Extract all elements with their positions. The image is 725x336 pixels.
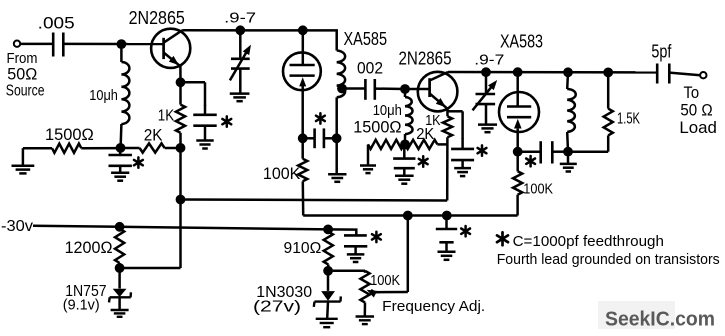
- node B junction: [116, 143, 126, 153]
- node H below U1: [298, 133, 308, 143]
- node C junction: [176, 143, 186, 153]
- asterisk for C7: [478, 145, 487, 155]
- feedthrough capacitor C3: [193, 105, 217, 149]
- svg-text:50Ω: 50Ω: [7, 65, 37, 84]
- asterisk for C10: [461, 226, 470, 236]
- resistor R11 910 ohm: [284, 232, 333, 271]
- svg-text:Frequency Adj.: Frequency Adj.: [382, 298, 485, 315]
- svg-text:.005: .005: [38, 15, 75, 33]
- node varactor V1 on rail: [235, 25, 245, 35]
- ground for V1: [230, 94, 250, 102]
- ground for tank 1: [328, 174, 346, 182]
- feedthrough capacitor C11 at rail end: [344, 235, 367, 262]
- capacitor C8 coupling at node L: [518, 141, 568, 163]
- node tube U1 on rail: [298, 25, 308, 35]
- transistor Q1 2N2865: [129, 8, 191, 82]
- svg-text:Source: Source: [6, 82, 45, 99]
- wire collector rail stage 1: [182, 30, 337, 50]
- svg-text:C=1000pf feedthrough: C=1000pf feedthrough: [513, 233, 664, 250]
- resistor R4 1500 ohm stage 2: [353, 118, 404, 166]
- node P zener D2 junction: [323, 266, 333, 276]
- resistor R1 1500 ohm: [23, 125, 121, 153]
- feedthrough capacitor C6 at node K: [393, 144, 415, 183]
- wire node P to potentiometer: [328, 271, 365, 273]
- wire C1 to Q1 base: [63, 43, 164, 46]
- resistor R6 1K stage 2: [425, 113, 452, 200]
- svg-text:100K: 100K: [263, 165, 301, 183]
- inductor L1 10uh: [89, 44, 129, 148]
- resistor R2 2K: [121, 127, 181, 153]
- label From 50ohm Source: [6, 50, 45, 99]
- svg-text:2N2865: 2N2865: [129, 8, 185, 28]
- asterisk for C2: [134, 157, 143, 167]
- ground for V2: [478, 125, 497, 133]
- potentiometer R12 100K Frequency Adj: [360, 216, 485, 317]
- node K junction: [400, 140, 410, 150]
- ground for R4: [360, 166, 376, 174]
- label -30v: [1, 218, 33, 235]
- svg-text:1200Ω: 1200Ω: [65, 238, 113, 257]
- svg-text:(27v): (27v): [253, 299, 301, 316]
- svg-text:100K: 100K: [523, 182, 553, 198]
- asterisk for C4: [316, 113, 325, 123]
- zener diode D1 1N757: [63, 268, 131, 314]
- tube U1 XA585 voltage-variable capacitor: [283, 29, 387, 138]
- inductor L2 tank coil stage 1: [337, 51, 345, 174]
- node G 1200 ohm on rail: [115, 222, 125, 232]
- svg-text:1.5K: 1.5K: [617, 111, 640, 128]
- input terminal From 50 ohm Source: [14, 41, 20, 47]
- svg-text:10μh: 10μh: [373, 102, 402, 119]
- asterisk for C3: [222, 116, 231, 126]
- resistor R8 1.5K: [568, 72, 640, 151]
- node tube U2 on rail: [513, 67, 523, 77]
- node A junction: [117, 39, 127, 49]
- resistor R5 2K stage 2: [405, 126, 447, 149]
- svg-text:Load: Load: [679, 118, 717, 137]
- svg-text:002: 002: [357, 59, 383, 78]
- svg-text:To: To: [684, 83, 700, 102]
- inductor L4 tank coil stage 2: [567, 72, 576, 151]
- svg-text:XA583: XA583: [500, 32, 543, 52]
- node O on line2: [442, 211, 452, 221]
- wire line1 emitter bias bus: [181, 200, 448, 201]
- resistor R7 100K stage 2: [513, 152, 553, 216]
- svg-text:-30v: -30v: [1, 218, 33, 235]
- wire line2 varactor bias bus: [303, 214, 517, 217]
- wire collector rail stage 2: [448, 71, 657, 74]
- node F zener D1 junction: [115, 263, 125, 273]
- ground for node M: [560, 152, 577, 172]
- varactor V2 .9-7 trimmer: [473, 52, 505, 125]
- svg-text:1500Ω: 1500Ω: [45, 125, 94, 144]
- wire C9 to output terminal: [669, 73, 700, 76]
- wire Q2 emitter branch to C7: [447, 111, 462, 139]
- asterisk for C11: [372, 232, 381, 242]
- svg-text:50 Ω: 50 Ω: [680, 100, 712, 119]
- svg-text:.9-7: .9-7: [224, 10, 256, 27]
- svg-text:2K: 2K: [144, 127, 163, 145]
- node 1.5K on rail: [603, 68, 613, 78]
- label To 50ohm Load: [679, 83, 717, 137]
- wire tap to C5: [342, 87, 365, 90]
- footnote text C=1000pf feedthrough: [513, 233, 664, 250]
- svg-text:SeekIC.com: SeekIC.com: [605, 308, 715, 331]
- resistor R10 1200 ohm: [65, 229, 125, 268]
- inductor L3 10uh stage 2: [373, 89, 413, 144]
- svg-text:910Ω: 910Ω: [284, 240, 322, 257]
- ground for potentiometer: [356, 317, 375, 325]
- tube U2 XA583 voltage-variable capacitor: [499, 32, 543, 152]
- node L below U2: [513, 147, 523, 157]
- svg-text:2N2865: 2N2865: [399, 49, 452, 69]
- wire node D to feedthrough C3: [181, 82, 206, 106]
- asterisk for C8: [526, 156, 535, 166]
- ground for D2: [316, 319, 338, 327]
- svg-text:(9.1v): (9.1v): [63, 297, 100, 314]
- wire vertical from node C to 1200 ohm branch: [120, 148, 181, 268]
- node tap on L2: [337, 84, 347, 94]
- resistor R9 100K stage 1: [263, 138, 307, 215]
- ground for R1: [12, 148, 35, 173]
- svg-text:XA585: XA585: [344, 29, 388, 49]
- feedthrough capacitor C7: [451, 138, 474, 176]
- svg-text:10μh: 10μh: [89, 87, 118, 104]
- footnote asterisk: [497, 232, 508, 245]
- svg-text:1500Ω: 1500Ω: [353, 118, 401, 137]
- node E on line1: [176, 195, 186, 205]
- capacitor C5 002: [357, 59, 383, 100]
- footnote text Fourth lead grounded on transistors: [497, 252, 720, 268]
- svg-text:.9-7: .9-7: [474, 52, 504, 69]
- wire -30v supply rail: [33, 226, 356, 236]
- node J Q2 base junction: [400, 84, 410, 94]
- asterisk for C6: [419, 156, 428, 166]
- svg-text:100K: 100K: [370, 273, 400, 289]
- ground for D1: [111, 310, 129, 317]
- node varactor V2 on rail: [481, 67, 491, 77]
- transistor Q2 2N2865: [399, 49, 458, 117]
- zener diode D2 1N3030: [253, 271, 341, 319]
- wire input to C1: [20, 43, 53, 46]
- node M tank 2 ground junction: [563, 147, 573, 157]
- capacitor C1 .005: [38, 15, 75, 57]
- svg-text:1K: 1K: [425, 113, 441, 129]
- node I on tank ground line: [332, 133, 342, 143]
- node coil L4 on rail: [563, 67, 573, 77]
- node D emitter junction of Q1: [176, 77, 186, 87]
- watermark SeekIC.com: [598, 301, 715, 331]
- capacitor C9 5pf: [651, 42, 672, 84]
- node N wiper junction on line2: [403, 211, 413, 221]
- capacitor C4 coupling at node H: [303, 128, 337, 148]
- svg-text:Fourth lead grounded on tr: Fourth lead grounded on transistors: [497, 252, 720, 268]
- feedthrough capacitor C10 at node O: [436, 216, 457, 260]
- svg-text:1K: 1K: [158, 108, 175, 125]
- svg-text:5pf: 5pf: [651, 42, 672, 62]
- varactor V1 .9-7 trimmer: [224, 10, 256, 94]
- wire C5 to Q2 base: [375, 87, 430, 90]
- output terminal To 50 ohm Load: [700, 72, 706, 78]
- feedthrough capacitor C2 at node B: [108, 148, 132, 181]
- resistor R3 1K: [158, 82, 185, 148]
- node Q 910 ohm on rail: [323, 225, 333, 235]
